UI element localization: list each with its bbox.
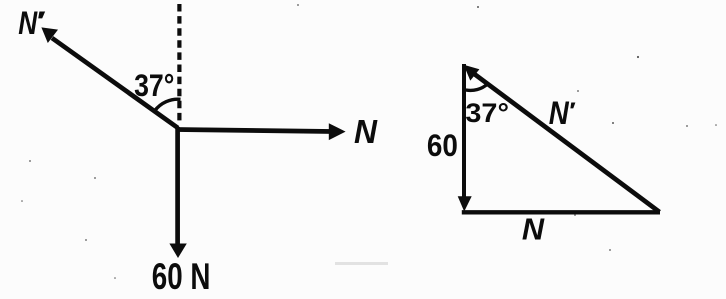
vector N (right arrow) (176, 123, 346, 140)
svg-text:60: 60 (427, 128, 458, 163)
vector 60 N (down arrow) (169, 127, 186, 258)
svg-text:37°: 37° (465, 98, 509, 128)
svg-text:N: N (354, 112, 378, 150)
vector N' (up-left arrow) (41, 27, 178, 128)
svg-text:N: N (549, 96, 570, 131)
triangle bottom side N (462, 210, 660, 214)
angle arc 37 deg (left diagram) (155, 99, 181, 111)
svg-text:N: N (18, 7, 38, 42)
svg-text:N: N (522, 211, 545, 246)
dashed vertical reference line (177, 4, 181, 123)
svg-text:′: ′ (37, 6, 46, 36)
angle arc 37 deg (right diagram) (466, 84, 488, 90)
triangle vertical side (vector 60, down arrow) (458, 64, 472, 212)
svg-text:60 N: 60 N (152, 255, 211, 297)
svg-text:′: ′ (569, 98, 576, 123)
svg-text:37°: 37° (134, 69, 174, 104)
faint scan streak (335, 262, 388, 265)
triangle hypotenuse vector N' (arrow up-left at top vertex) (464, 65, 660, 212)
